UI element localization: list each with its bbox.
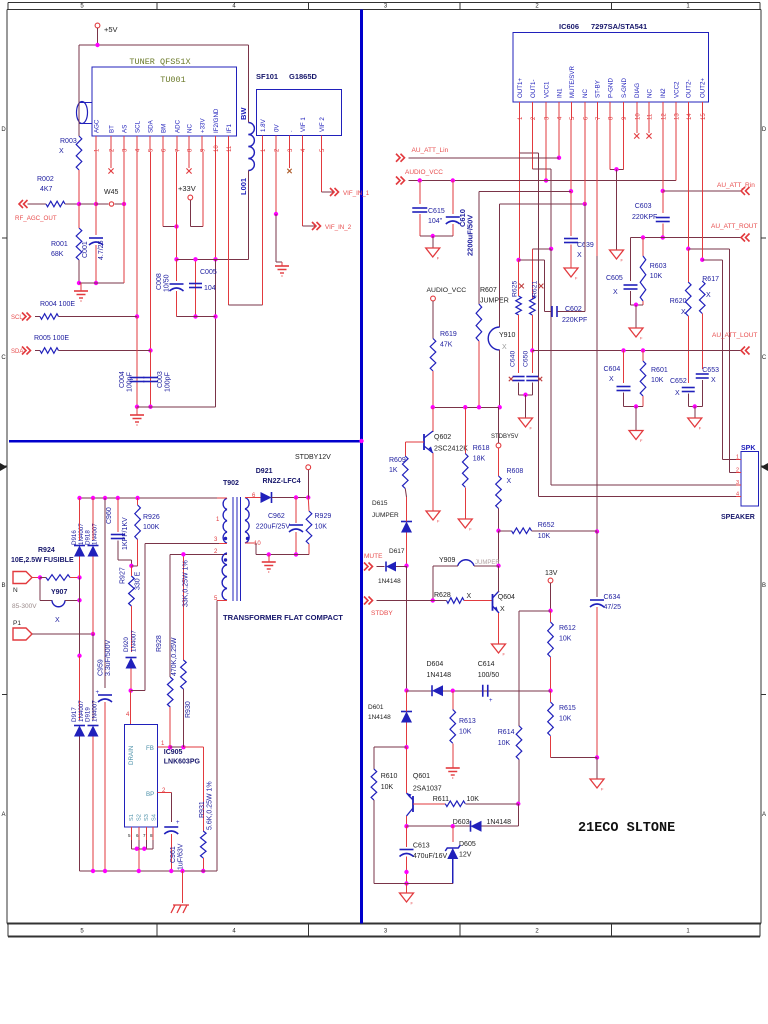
svg-text:OUT2-: OUT2- [686,79,693,98]
svg-text:F: F [437,519,440,524]
svg-text:X: X [500,606,505,613]
svg-text:OUT1+: OUT1+ [517,77,524,98]
svg-text:FB: FB [146,745,154,752]
svg-text:VCC2: VCC2 [673,81,680,98]
svg-text:F: F [411,901,414,906]
svg-text:AS: AS [121,125,128,133]
svg-text:68K: 68K [51,251,64,258]
svg-text:F: F [575,276,578,281]
svg-text:R601: R601 [651,367,668,374]
svg-text:X: X [609,376,614,383]
svg-text:3: 3 [214,537,218,543]
svg-text:R002: R002 [37,176,54,183]
svg-text:C650: C650 [523,351,530,367]
svg-text:S2: S2 [137,814,143,821]
svg-text:C959: C959 [98,659,105,676]
svg-text:12V: 12V [459,852,472,859]
svg-text:BW: BW [239,107,248,120]
svg-text:470uF/16V: 470uF/16V [413,853,448,860]
svg-text:D919: D919 [85,707,92,722]
svg-text:D916: D916 [71,530,78,545]
svg-text:5: 5 [128,833,131,838]
svg-text:MUTE: MUTE [364,553,383,560]
svg-text:8: 8 [609,116,615,120]
svg-text:3: 3 [545,116,551,120]
svg-text:TUNER QFS51X: TUNER QFS51X [129,57,190,67]
svg-text:X: X [711,377,716,384]
svg-text:10K: 10K [315,524,328,531]
svg-text:DIAG: DIAG [634,83,641,98]
svg-text:14: 14 [687,113,693,120]
svg-text:BT: BT [108,125,115,133]
svg-text:RF_AGC_OUT: RF_AGC_OUT [15,215,57,222]
svg-text:10: 10 [254,541,261,547]
svg-text:R628: R628 [434,592,451,599]
svg-text:NC: NC [186,124,193,133]
svg-text:R607: R607 [480,287,497,294]
svg-text:1N4007: 1N4007 [92,700,99,722]
svg-text:D: D [762,127,767,133]
svg-text:2SC2412K: 2SC2412K [434,446,468,453]
svg-text:100K: 100K [143,524,160,531]
svg-text:R620: R620 [670,298,687,305]
svg-text:B: B [1,583,5,589]
svg-text:TU001: TU001 [160,75,186,85]
svg-text:1: 1 [216,517,220,523]
svg-text:10K: 10K [650,273,663,280]
svg-text:AU_ATT_Rin: AU_ATT_Rin [717,182,755,189]
svg-text:C605: C605 [606,275,623,282]
svg-text:D921: D921 [256,468,273,475]
svg-text:F: F [437,256,440,261]
svg-text:4: 4 [301,148,307,152]
svg-text:X: X [675,390,680,397]
svg-text:.: . [287,130,294,132]
svg-text:104": 104" [428,218,443,225]
svg-text:R611: R611 [433,796,449,803]
svg-text:C003: C003 [157,371,164,388]
svg-text:D605: D605 [459,841,476,848]
svg-text:AGC: AGC [93,119,100,133]
svg-text:1N4007: 1N4007 [131,630,138,652]
svg-text:100pF: 100pF [165,372,172,392]
svg-text:BP: BP [146,791,154,798]
svg-text:11: 11 [227,145,233,152]
svg-text:7: 7 [596,116,602,120]
svg-text:+: + [176,820,180,826]
svg-text:AUDIO_VCC: AUDIO_VCC [427,287,467,294]
svg-text:F: F [621,258,624,263]
svg-text:C001: C001 [82,241,89,258]
svg-text:D601: D601 [368,704,384,711]
svg-text:R929: R929 [315,513,332,520]
svg-text:OUT1-: OUT1- [530,79,537,98]
svg-text:11: 11 [648,113,654,120]
svg-text:G1865D: G1865D [289,72,318,81]
svg-text:2: 2 [535,4,539,10]
svg-text:S4: S4 [152,814,158,821]
svg-text:IF2/GND: IF2/GND [213,108,220,133]
svg-text:X: X [706,292,711,299]
svg-text:5: 5 [80,4,84,10]
svg-text:X: X [59,148,64,155]
svg-text:MUTE/SVR: MUTE/SVR [569,65,576,98]
svg-text:1: 1 [95,148,101,152]
svg-text:OUT2+: OUT2+ [700,77,707,98]
svg-text:1: 1 [161,741,165,747]
svg-text:15: 15 [701,113,707,120]
svg-text:100/50: 100/50 [478,672,500,679]
svg-text:3: 3 [288,148,294,152]
svg-text:1: 1 [686,4,690,10]
svg-text:R625: R625 [512,281,519,297]
svg-text:IN1: IN1 [556,88,563,98]
svg-text:10: 10 [635,113,641,120]
svg-text:N: N [13,587,18,594]
svg-text:X: X [681,309,686,316]
svg-text:W45: W45 [104,189,119,196]
svg-text:X: X [55,617,60,624]
svg-text:VIF_IN_2: VIF_IN_2 [325,224,352,231]
svg-text:TRANSFORMER FLAT COMPACT: TRANSFORMER FLAT COMPACT [223,613,343,622]
svg-text:2: 2 [110,148,116,152]
svg-text:47K: 47K [440,342,453,349]
svg-text:13V: 13V [545,570,558,577]
svg-text:12: 12 [661,113,667,120]
svg-text:C: C [762,355,767,361]
svg-text:18K: 18K [473,456,486,463]
svg-text:F: F [640,438,643,443]
svg-text:10K: 10K [538,533,551,540]
svg-text:RN2Z-LFC4: RN2Z-LFC4 [263,478,301,485]
svg-text:IF1: IF1 [226,124,233,133]
svg-text:NC: NC [646,89,653,98]
svg-text:D918: D918 [85,530,92,545]
svg-text:R619: R619 [440,331,457,338]
svg-text:R603: R603 [650,263,667,270]
svg-text:D603: D603 [453,819,470,826]
svg-text:SPEAKER: SPEAKER [721,514,755,521]
svg-text:2SA1037: 2SA1037 [413,786,442,793]
svg-text:10K: 10K [559,716,572,723]
svg-text:AUDIO_VCC: AUDIO_VCC [405,169,443,176]
svg-text:0V: 0V [273,124,280,132]
svg-text:Q604: Q604 [498,594,515,601]
svg-text:1KPF/1KV: 1KPF/1KV [122,517,129,550]
svg-text:D615: D615 [372,500,388,507]
svg-text:2200uF/50V: 2200uF/50V [466,215,475,256]
svg-text:3: 3 [384,4,388,10]
svg-text:R614: R614 [498,729,515,736]
svg-text:470K,0.25W: 470K,0.25W [171,637,178,676]
svg-text:VCC1: VCC1 [543,81,550,98]
svg-text:JUMPER: JUMPER [372,512,399,519]
svg-text:10E,2.5W FUSIBLE: 10E,2.5W FUSIBLE [11,557,74,564]
svg-text:220KPF: 220KPF [562,317,587,324]
svg-text:Y909: Y909 [439,557,455,564]
svg-text:F: F [469,527,472,532]
svg-text:VIF_IN_1: VIF_IN_1 [343,190,370,197]
svg-text:R610: R610 [381,773,398,780]
svg-text:+5V: +5V [104,25,118,34]
svg-text:F: F [699,426,702,431]
svg-text:C640: C640 [510,351,517,367]
svg-text:220uF/25V: 220uF/25V [256,524,291,531]
svg-text:7: 7 [143,833,146,838]
svg-text:F: F [601,787,604,792]
svg-text:C634: C634 [604,594,621,601]
svg-text:7297SA/STA541: 7297SA/STA541 [591,22,647,31]
svg-text:33K,0.25W 1%: 33K,0.25W 1% [183,560,190,607]
svg-text:X: X [467,593,472,600]
svg-text:R617: R617 [702,276,719,283]
svg-text:1: 1 [518,116,524,120]
svg-text:Y907: Y907 [51,589,67,596]
svg-text:R652: R652 [538,522,555,529]
svg-text:1N4148: 1N4148 [487,819,512,826]
svg-text:6: 6 [583,116,589,120]
svg-text:D917: D917 [71,707,78,722]
svg-text:5: 5 [80,929,84,935]
svg-text:STDBY12V: STDBY12V [295,454,331,461]
svg-text:1: 1 [261,148,267,152]
svg-text:C961: C961 [170,846,177,863]
svg-text:5: 5 [570,116,576,120]
svg-text:3.3uF/500V: 3.3uF/500V [105,639,112,676]
svg-text:C615: C615 [428,208,445,215]
svg-text:D: D [1,127,6,133]
svg-text:Y910: Y910 [499,332,515,339]
svg-text:100pF: 100pF [127,372,134,392]
svg-text:10: 10 [214,145,220,152]
svg-text:10K: 10K [498,740,511,747]
svg-text:B: B [762,583,766,589]
svg-text:ST-BY: ST-BY [595,80,602,98]
svg-text:JUMPER: JUMPER [480,298,509,305]
svg-text:SCL: SCL [11,315,23,321]
svg-text:AU_ATT_ROUT: AU_ATT_ROUT [711,223,757,230]
svg-text:D604: D604 [427,661,444,668]
svg-text:85-300V: 85-300V [12,603,37,610]
svg-text:R618: R618 [473,445,490,452]
svg-text:D920: D920 [123,637,130,652]
svg-text:10K: 10K [467,796,480,803]
svg-text:R928: R928 [156,635,163,652]
svg-text:330 E: 330 E [135,571,142,590]
svg-text:R613: R613 [459,718,476,725]
svg-text:DRAIN: DRAIN [128,746,135,765]
svg-text:7: 7 [176,148,182,152]
svg-text:10K: 10K [459,729,472,736]
svg-text:4: 4 [126,712,130,718]
svg-text:10K: 10K [651,377,664,384]
svg-text:C603: C603 [635,203,652,210]
svg-text:STDBY: STDBY [371,610,393,617]
svg-text:SCL: SCL [134,120,141,133]
svg-text:JUMPER: JUMPER [475,560,500,566]
svg-text:ADC: ADC [174,119,181,133]
svg-text:R931: R931 [199,801,206,818]
svg-text:2: 2 [535,929,539,935]
svg-text:C613: C613 [413,843,430,850]
svg-text:X: X [507,478,512,485]
svg-text:F: F [503,652,506,657]
svg-text:C008: C008 [156,273,163,290]
svg-text:4: 4 [232,4,236,10]
svg-text:C614: C614 [478,661,495,668]
svg-text:VIF 1: VIF 1 [300,117,307,132]
svg-text:P1: P1 [13,620,21,627]
svg-text:5.6K,0.25W 1%: 5.6K,0.25W 1% [207,781,214,830]
svg-text:AU_ATT_Lin: AU_ATT_Lin [412,147,449,154]
svg-text:IC905: IC905 [164,749,183,756]
svg-text:A: A [762,812,766,818]
svg-text:R612: R612 [559,625,576,632]
svg-text:D617: D617 [389,548,405,555]
svg-text:LNK603PG: LNK603PG [164,759,201,766]
svg-text:+: + [96,690,100,696]
svg-text:S-GND: S-GND [621,78,628,98]
svg-text:1N4148: 1N4148 [427,672,452,679]
svg-text:R608: R608 [507,468,524,475]
svg-text:220KPF: 220KPF [632,214,657,221]
svg-text:1uF/63V: 1uF/63V [178,843,185,870]
svg-text:4: 4 [232,929,236,935]
svg-text:1K: 1K [389,467,398,474]
svg-text:2: 2 [162,788,166,794]
svg-text:+: + [489,698,493,704]
svg-text:T902: T902 [223,480,239,487]
svg-text:F: F [530,426,533,431]
svg-text:C652: C652 [670,378,687,385]
svg-text:IN2: IN2 [660,88,667,98]
svg-text:6: 6 [162,148,168,152]
svg-text:1.8V: 1.8V [260,118,267,132]
svg-text:R615: R615 [559,705,576,712]
svg-text:8: 8 [188,148,194,152]
svg-text:L001: L001 [239,178,248,195]
svg-text:Q601: Q601 [413,773,430,780]
svg-text:X: X [502,344,507,351]
svg-text:R621: R621 [532,281,539,297]
svg-text:3: 3 [384,929,388,935]
svg-text:IC606: IC606 [559,22,579,31]
svg-text:R003: R003 [60,138,77,145]
svg-text:A: A [1,812,5,818]
svg-text:R930: R930 [185,701,192,718]
svg-text:6: 6 [252,493,256,499]
svg-text:C639: C639 [577,242,594,249]
svg-text:5: 5 [320,148,326,152]
svg-text:SF101: SF101 [256,72,278,81]
svg-text:S3: S3 [144,814,150,821]
svg-text:R001: R001 [51,241,68,248]
svg-text:4K7: 4K7 [40,186,53,193]
svg-text:10K: 10K [381,784,394,791]
svg-text:13: 13 [675,113,681,120]
svg-text:SDA: SDA [147,119,154,133]
svg-text:10/50: 10/50 [164,274,171,292]
svg-text:4.7/25: 4.7/25 [98,240,105,260]
svg-text:R005 100E: R005 100E [34,335,69,342]
svg-text:104: 104 [204,285,216,292]
svg-text:2: 2 [531,116,537,120]
svg-text:R004 100E: R004 100E [40,301,75,308]
svg-text:2: 2 [275,148,281,152]
svg-text:BM: BM [160,124,167,133]
svg-text:5: 5 [149,148,155,152]
svg-text:X: X [613,289,618,296]
svg-text:P-GND: P-GND [607,78,614,98]
svg-text:C960: C960 [106,507,113,524]
svg-text:C653: C653 [702,367,719,374]
svg-text:C004: C004 [119,371,126,388]
svg-text:S1: S1 [129,814,135,821]
svg-text:1: 1 [686,929,690,935]
svg-text:STDBY5V: STDBY5V [491,434,518,440]
svg-text:R926: R926 [143,514,160,521]
svg-text:R924: R924 [38,547,55,554]
svg-text:9: 9 [201,148,207,152]
svg-text:X: X [577,252,582,259]
svg-text:3: 3 [123,148,129,152]
svg-text:+33V: +33V [178,184,196,193]
svg-text:1N4148: 1N4148 [378,578,401,585]
svg-text:4: 4 [136,148,142,152]
svg-text:Q602: Q602 [434,434,451,441]
svg-text:4: 4 [558,116,564,120]
svg-text:VIF 2: VIF 2 [319,117,326,132]
svg-text:21ECO SLTONE: 21ECO SLTONE [578,821,675,836]
svg-text:AU_ATT_LOUT: AU_ATT_LOUT [712,332,757,339]
svg-text:C604: C604 [604,366,621,373]
svg-text:NC: NC [582,89,589,98]
svg-text:C962: C962 [268,513,285,520]
svg-text:SDA: SDA [11,349,23,355]
svg-text:R927: R927 [120,567,127,584]
svg-text:10K: 10K [559,636,572,643]
svg-text:1N4148: 1N4148 [368,714,391,721]
svg-text:C: C [1,355,6,361]
svg-text:47/25: 47/25 [604,604,622,611]
svg-text:9: 9 [622,116,628,120]
svg-text:+33V: +33V [199,118,206,133]
svg-text:F: F [640,336,643,341]
svg-text:C005: C005 [200,269,217,276]
